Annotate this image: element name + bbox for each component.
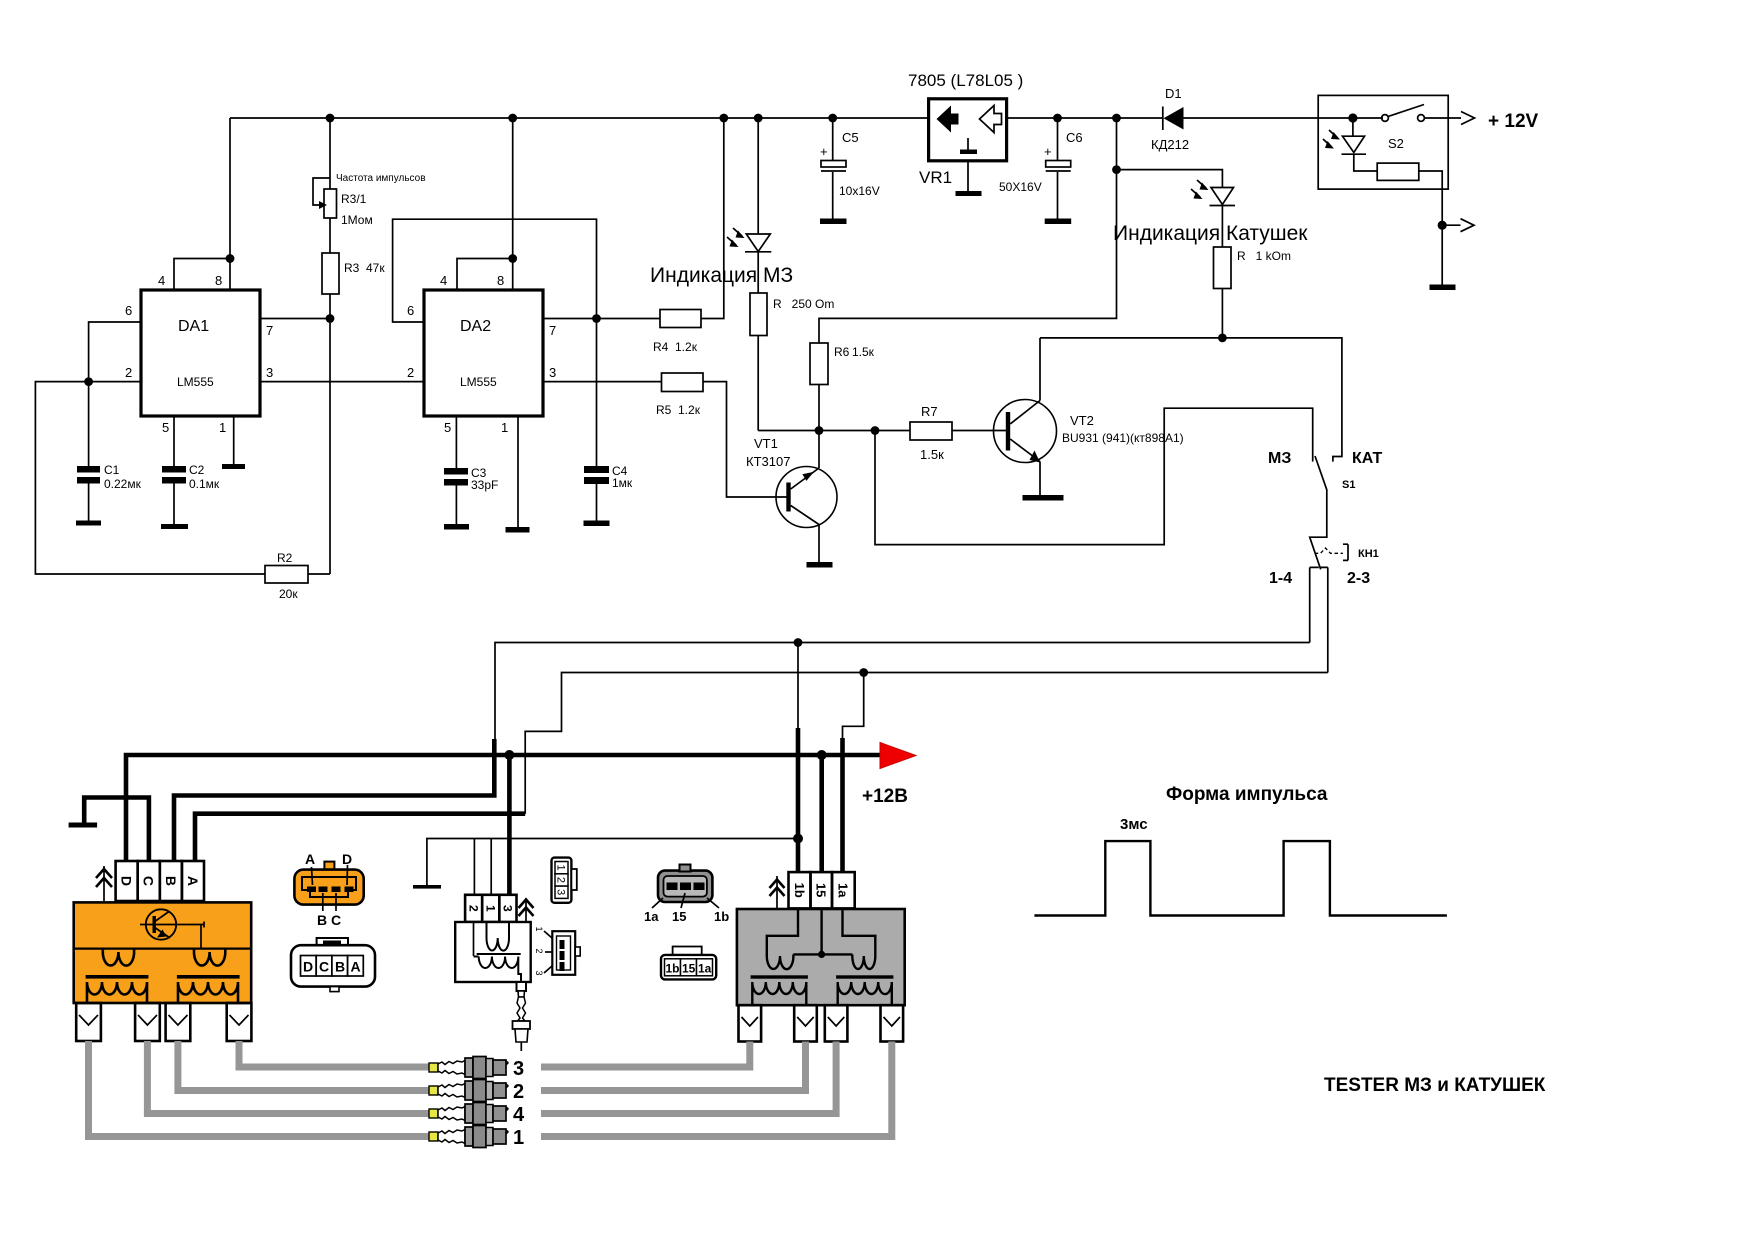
svg-text:20к: 20к [279,587,298,601]
resistor R2 20к [265,551,330,601]
svg-text:КТ3107: КТ3107 [746,454,790,469]
HT cable twin tower2 to plug2 [541,1042,806,1091]
wire +12В rail bottom [126,750,880,861]
single coil connector terminals 213 [465,895,516,922]
svg-text:0.1мк: 0.1мк [189,477,220,491]
wire 2-3 to module A [195,668,1328,861]
spark plug 1 [429,1126,508,1148]
LED индикация Катушек [1117,170,1236,206]
svg-text:LM555: LM555 [460,375,497,389]
module primary winding right [194,949,225,966]
arrow +12В red [862,743,916,808]
svg-text:+: + [820,144,828,159]
svg-text:C6: C6 [1066,130,1083,145]
wire module C to ground [69,798,149,862]
ignition module body orange [74,902,252,1003]
module secondary winding right [178,982,238,1003]
LED индикация МЗ [727,114,771,252]
svg-text:КАТ: КАТ [1352,450,1383,467]
svg-text:3мс: 3мс [1120,816,1148,833]
contact 2-3 [1320,567,1370,672]
capacitor C2 0.1мк [161,416,220,529]
HT cable twin tower1 to plug3 [541,1042,750,1068]
svg-text:R7: R7 [921,404,938,419]
svg-text:1мк: 1мк [612,476,633,490]
single coil body [455,922,531,982]
connector pictogram 1b-15-1a white [661,947,716,980]
svg-text:7: 7 [266,323,273,338]
wire 1-4 to module B [174,638,1310,861]
svg-text:LM555: LM555 [177,375,214,389]
svg-text:3: 3 [266,365,273,380]
arrow ground output [1438,219,1474,232]
wire coil1 ground net [413,839,798,896]
button КН1 [1315,544,1379,560]
svg-text:4: 4 [440,273,447,288]
svg-text:2-3: 2-3 [1347,570,1370,587]
svg-text:1b: 1b [666,962,680,976]
wire DA2 pin6 loop [393,219,601,323]
ignition module connector terminals DCBA [116,861,204,901]
svg-text:3: 3 [534,970,544,975]
svg-text:R4 1.2к: R4 1.2к [653,340,698,354]
svg-text:3: 3 [555,889,567,895]
wire to МЗ contact loop [875,408,1313,544]
switch block S2 [1318,95,1448,189]
svg-text:5: 5 [162,420,169,435]
resistor R5 1.2к [656,373,787,497]
module HV towers [76,1003,251,1041]
svg-text:1a: 1a [698,962,712,976]
transistor icon in module [140,909,204,948]
svg-text:Индикация МЗ: Индикация МЗ [650,264,793,287]
svg-text:3: 3 [501,905,515,912]
svg-text:DA2: DA2 [460,318,491,335]
svg-text:TESTER МЗ и КАТУШЕК: TESTER МЗ и КАТУШЕК [1324,1075,1546,1096]
module core bars [86,975,240,979]
svg-text:R 1 kOm: R 1 kOm [1237,249,1291,263]
svg-text:4: 4 [513,1104,525,1126]
svg-text:C: C [331,912,341,928]
svg-text:R2: R2 [277,551,293,565]
connector pictogram 123 vertical [552,858,577,903]
svg-text:R 250 Om: R 250 Om [773,297,834,311]
svg-text:+: + [1044,144,1052,159]
HT cable module tower2 to plug4 [147,1041,431,1114]
svg-text:D: D [342,851,352,867]
svg-text:15: 15 [682,962,696,976]
svg-text:15: 15 [814,883,829,897]
svg-text:D: D [119,876,135,886]
svg-text:B: B [317,912,327,928]
spark plug 4 [429,1103,508,1125]
svg-text:КН1: КН1 [1358,548,1379,560]
HT cable module tower4 to plug3 [239,1041,431,1067]
HT cable twin tower3 to plug4 [541,1042,836,1114]
svg-text:6: 6 [125,303,132,318]
arrow chevron single coil [519,898,534,922]
arrow chevron module [96,866,112,901]
svg-text:2: 2 [125,365,132,380]
svg-text:7805 (L78L05 ): 7805 (L78L05 ) [908,71,1023,90]
svg-text:BU931 (941)(кт898А1): BU931 (941)(кт898А1) [1062,431,1184,445]
connector pictogram DCBA white [291,938,375,992]
connector pictogram side view [534,926,580,975]
wire DA1 pin7 [260,314,334,323]
svg-text:1b: 1b [792,883,807,898]
svg-text:50X16V: 50X16V [999,180,1042,194]
contact 1-4 [1269,567,1319,642]
svg-text:R5 1.2к: R5 1.2к [656,403,701,417]
module primary winding left [103,949,134,966]
svg-text:1Мом: 1Мом [341,213,373,227]
svg-text:R3 47к: R3 47к [344,261,385,275]
svg-text:1: 1 [501,420,508,435]
switch S1 lever [1268,450,1383,569]
resistor R3 47к [322,218,385,319]
svg-text:1a: 1a [836,883,851,898]
wire katушек branch from rail [819,114,1121,343]
svg-text:A: A [305,851,315,867]
svg-text:1.5к: 1.5к [852,345,875,359]
ground S2 chain [1430,285,1456,291]
svg-text:B: B [163,876,179,886]
svg-text:15: 15 [672,909,686,924]
svg-text:VT2: VT2 [1070,413,1094,428]
wire coil 1b [793,643,803,873]
wire coil15 from rail [819,755,824,873]
svg-text:S1: S1 [1342,479,1355,491]
ground DA2 pin1 [506,416,530,533]
spark plug 2 [429,1080,508,1102]
capacitor C1 0.22мк [76,382,142,526]
svg-text:B: B [335,959,345,975]
svg-text:VR1: VR1 [919,168,952,187]
svg-text:КД212: КД212 [1151,137,1189,152]
wire DA2 pin7 [543,318,660,320]
svg-text:3: 3 [513,1058,524,1080]
svg-text:Форма импульса: Форма импульса [1166,784,1328,805]
connector pictogram 1a-15-1b gray [644,865,729,925]
svg-text:VT1: VT1 [754,436,778,451]
capacitor C6 50X16V [999,114,1083,224]
svg-text:1: 1 [219,420,226,435]
svg-text:МЗ: МЗ [1268,450,1291,467]
svg-text:2: 2 [534,948,544,953]
svg-text:1: 1 [513,1127,524,1149]
svg-text:8: 8 [215,273,222,288]
svg-text:1: 1 [534,926,544,931]
svg-text:3: 3 [549,365,556,380]
resistor R6 1.5к [810,343,875,431]
resistor R7 1.5к [910,404,1006,462]
HT cable module tower3 to plug2 [178,1041,431,1091]
wire DA1 pin2 left loop [35,377,265,574]
svg-text:+12В: +12В [862,786,908,807]
wire coil 1a [843,673,864,873]
resistor in S2 [1354,154,1442,284]
wire DA2 pin3 [543,381,662,383]
wire VT2 collector to КАТ [1040,338,1342,462]
svg-text:A: A [185,876,201,886]
twin coil body gray [737,909,905,1005]
capacitor C3 33pF [444,416,498,530]
svg-text:10x16V: 10x16V [839,184,880,198]
svg-text:7: 7 [549,323,556,338]
svg-text:1-4: 1-4 [1269,570,1292,587]
svg-text:C2: C2 [189,463,205,477]
svg-text:DA1: DA1 [178,318,209,335]
transistor VT1 КТ3107 [746,431,837,563]
svg-text:C: C [319,959,329,975]
capacitor C4 1мк [584,319,633,527]
twin coil terminals 1b-15-1a [789,872,855,908]
svg-text:8: 8 [497,273,504,288]
svg-text:R6: R6 [834,345,850,359]
svg-text:R3/1: R3/1 [341,192,367,206]
svg-text:C5: C5 [842,130,859,145]
svg-text:0.22мк: 0.22мк [104,477,142,491]
wire DA1 pins 4-8 to rail [174,118,234,290]
svg-text:C1: C1 [104,463,120,477]
svg-text:1: 1 [555,865,567,871]
resistor R 1 kOm [1214,206,1292,343]
svg-text:1: 1 [483,905,497,912]
capacitor C5 10x16V [820,114,880,224]
resistor R 250 Om [750,252,834,431]
resistor R4 1.2к [653,114,728,354]
svg-text:4: 4 [158,273,165,288]
svg-text:C: C [141,876,157,886]
twin coil HV towers [739,1005,904,1041]
wire coil 3 from rail [507,755,512,895]
arrow +12V output [1424,111,1539,132]
wire +V top rail [230,117,1383,119]
svg-text:1b: 1b [714,909,729,924]
svg-text:A: A [351,959,361,975]
arrow chevron twin coil [770,876,785,908]
wire DA1 pin3 to DA2 pin2 [260,381,424,383]
voltage regulator VR1 7805 [908,71,1023,196]
module secondary winding left [87,982,147,1003]
svg-text:6: 6 [407,303,414,318]
svg-text:2: 2 [513,1081,524,1103]
svg-text:Индикация Катушек: Индикация Катушек [1113,222,1308,245]
svg-text:2: 2 [466,905,480,912]
connector pictogram orange [294,851,363,928]
HT cable twin tower4 to plug1 [541,1042,892,1137]
ground VT2 [1023,495,1064,501]
svg-text:33pF: 33pF [471,478,498,492]
svg-text:1.5к: 1.5к [920,447,944,462]
wire DA1 pin6 [89,322,141,382]
single coil HV output and spark plug [513,982,531,1051]
LED in S2 [1323,118,1366,154]
IC DA2 [407,273,556,435]
ground DA1 pin1 [222,416,245,469]
diode D1 КД212 [1151,86,1189,152]
waveform Форма импульса [1034,784,1447,916]
svg-text:1a: 1a [644,909,659,924]
wire DA2 pins 4-8 to rail [457,114,517,290]
svg-text:D: D [303,959,313,975]
svg-text:2: 2 [407,365,414,380]
HT cable module tower1 to plug1 [89,1041,432,1137]
ground VT1 [807,562,833,568]
wire VT1 base row [758,426,910,435]
IC DA1 [125,273,273,435]
svg-text:2: 2 [555,877,567,883]
svg-text:5: 5 [444,420,451,435]
spark plug 3 [429,1057,508,1079]
svg-text:S2: S2 [1388,136,1404,151]
svg-text:D1: D1 [1165,86,1182,101]
wire pin7 down to R2 [329,319,331,575]
transistor VT2 BU931 [994,338,1184,495]
svg-text:+ 12V: + 12V [1488,111,1539,132]
svg-text:Частота импульсов: Частота импульсов [336,173,426,184]
potentiometer R3/1 1Мом [313,114,426,227]
